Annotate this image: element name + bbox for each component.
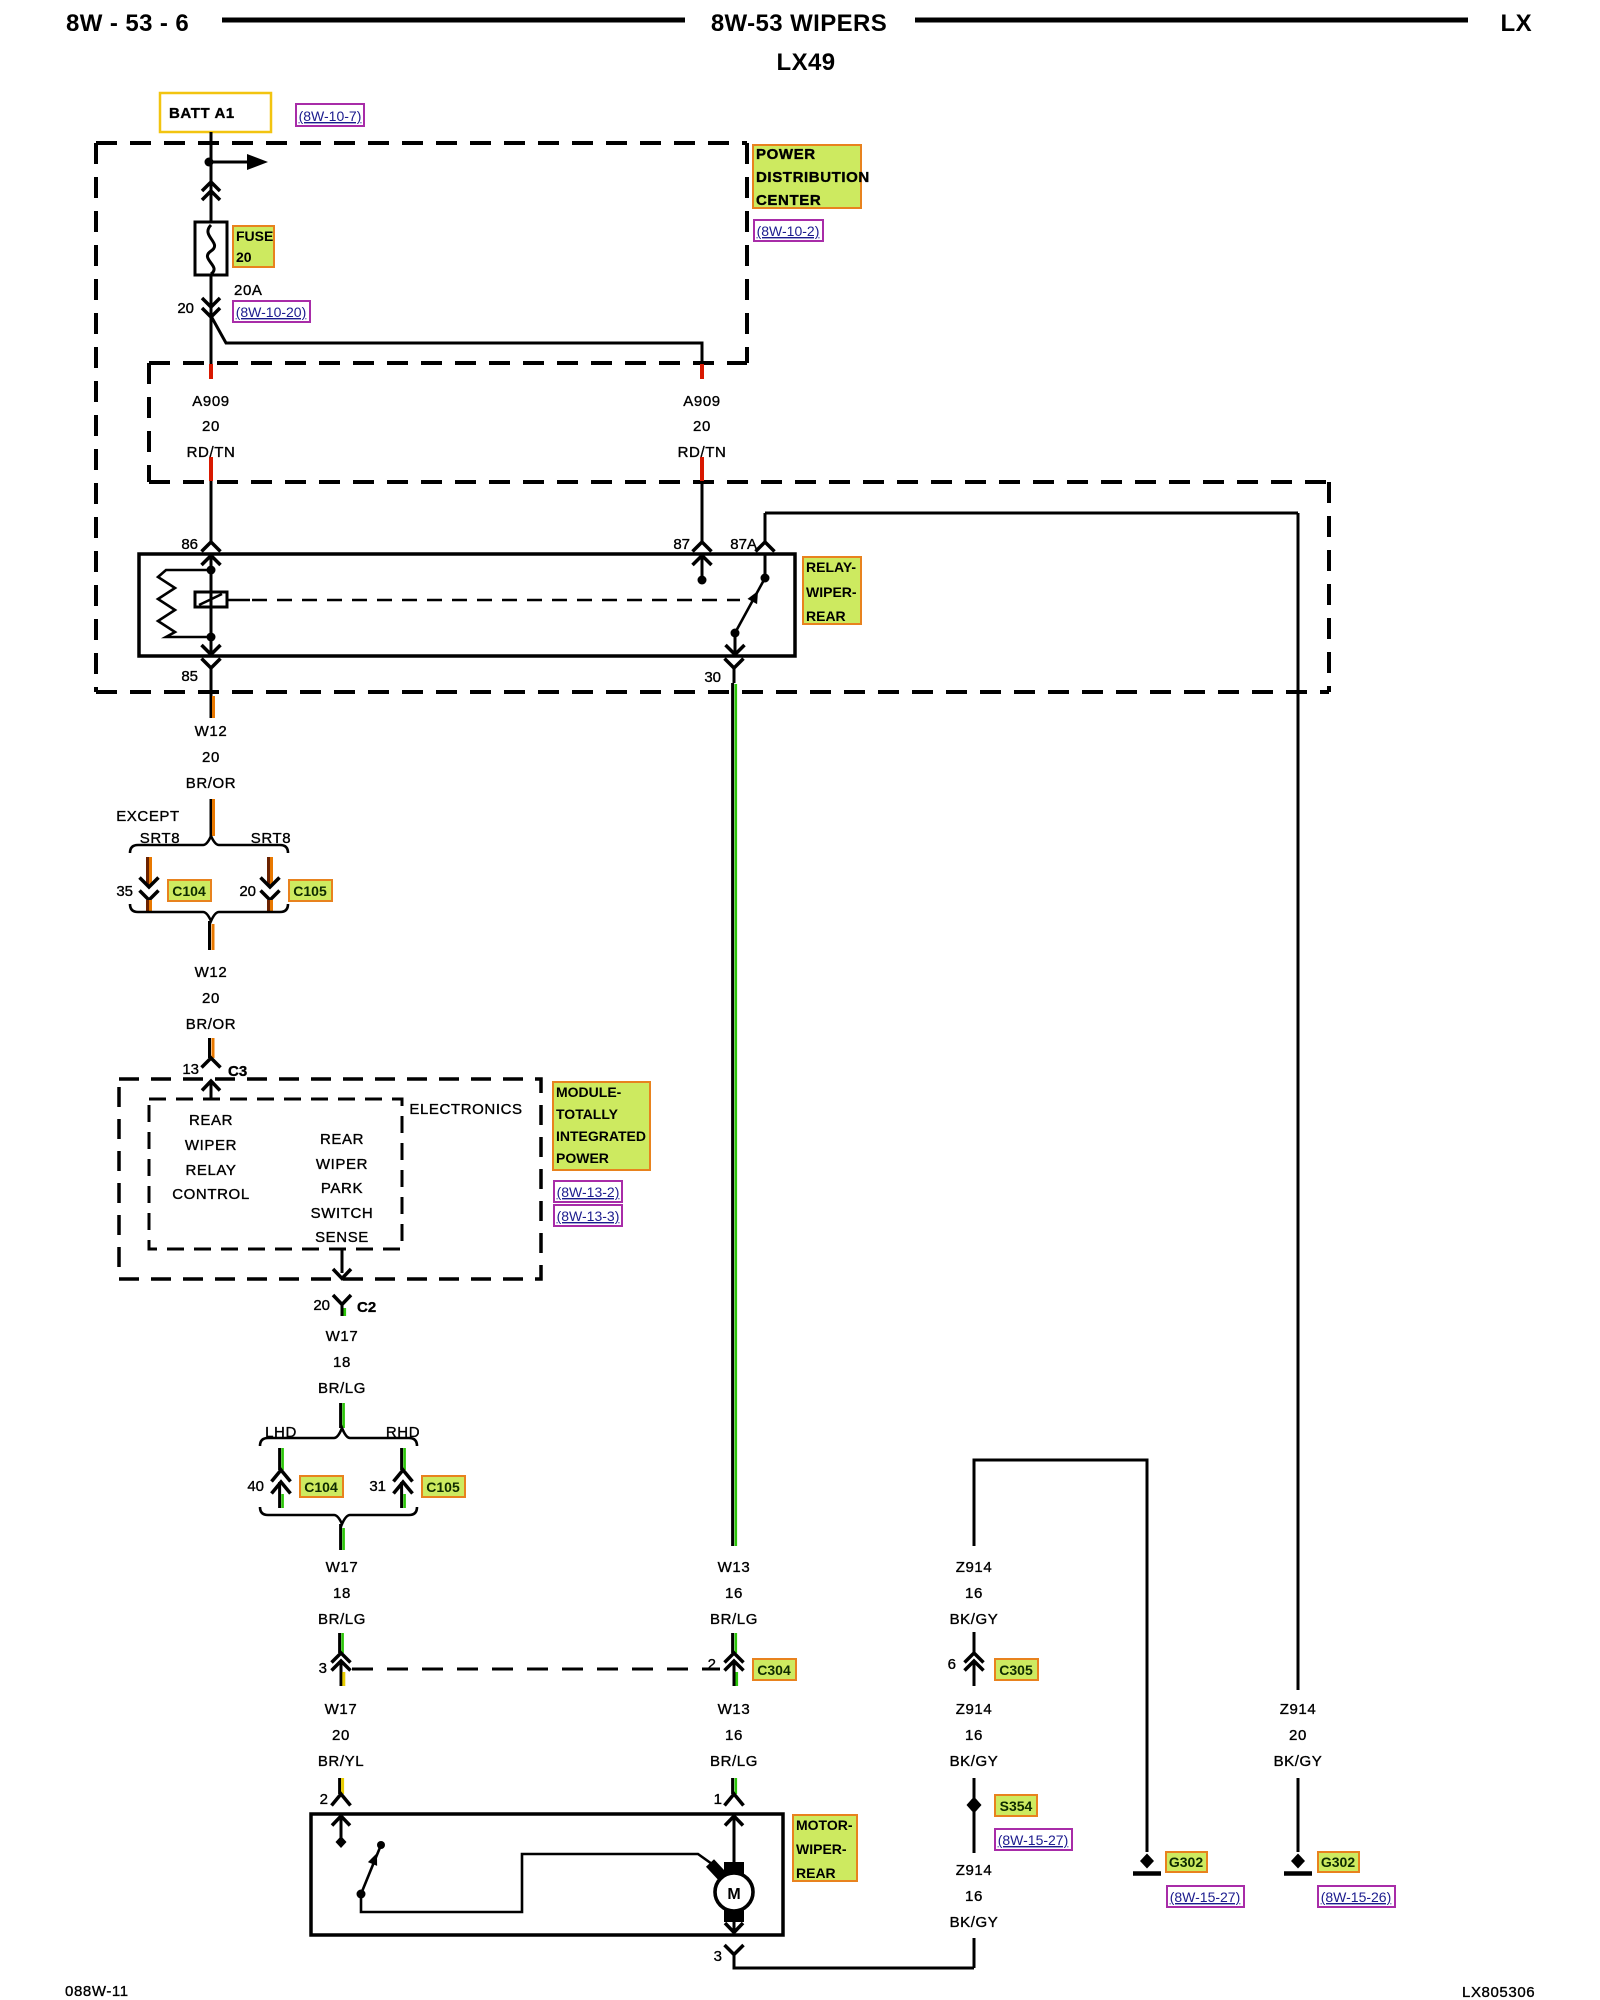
svg-text:20: 20 [1289,1727,1307,1744]
svg-text:MODULE-: MODULE- [556,1084,622,1100]
svg-text:WIPER-: WIPER- [806,584,857,600]
svg-text:BR/LG: BR/LG [710,1611,758,1628]
svg-text:W12: W12 [195,723,228,740]
svg-text:W17: W17 [326,1328,359,1345]
svg-text:(8W-10-2): (8W-10-2) [757,223,820,239]
svg-text:PARK: PARK [321,1180,363,1197]
svg-text:088W-11: 088W-11 [65,1983,129,2000]
svg-text:RELAY: RELAY [185,1162,236,1179]
svg-text:WIPER-: WIPER- [796,1841,847,1857]
svg-text:Z914: Z914 [956,1559,993,1576]
svg-text:20: 20 [202,749,220,766]
svg-text:20: 20 [239,883,256,900]
svg-text:Z914: Z914 [956,1701,993,1718]
svg-text:18: 18 [333,1354,351,1371]
svg-text:20: 20 [236,249,252,265]
svg-text:2: 2 [320,1791,328,1808]
svg-text:30: 30 [704,669,721,686]
svg-text:20: 20 [313,1297,330,1314]
svg-text:16: 16 [725,1727,743,1744]
svg-text:BR/YL: BR/YL [318,1753,364,1770]
svg-text:REAR: REAR [806,608,846,624]
svg-text:(8W-10-20): (8W-10-20) [236,304,307,320]
svg-text:20: 20 [177,300,194,317]
svg-text:S354: S354 [1000,1798,1033,1814]
svg-text:1: 1 [714,1791,722,1808]
svg-text:16: 16 [965,1727,983,1744]
svg-text:M: M [727,1886,740,1903]
svg-text:BR/LG: BR/LG [710,1753,758,1770]
svg-text:C2: C2 [357,1299,376,1316]
svg-text:W17: W17 [326,1559,359,1576]
svg-text:20: 20 [202,418,220,435]
svg-text:MOTOR-: MOTOR- [796,1817,853,1833]
svg-text:CONTROL: CONTROL [172,1186,250,1203]
svg-text:16: 16 [965,1585,983,1602]
svg-text:REAR: REAR [796,1865,836,1881]
svg-text:35: 35 [116,883,133,900]
svg-text:FUSE: FUSE [236,228,273,244]
svg-text:20: 20 [202,990,220,1007]
svg-text:BK/GY: BK/GY [950,1753,999,1770]
svg-text:LX805306: LX805306 [1462,1984,1535,2000]
svg-text:13: 13 [182,1061,199,1078]
svg-text:REAR: REAR [320,1131,364,1148]
svg-text:(8W-13-2): (8W-13-2) [557,1184,620,1200]
svg-text:40: 40 [247,1478,264,1495]
svg-text:20A: 20A [234,282,263,299]
svg-text:8W-53 WIPERS: 8W-53 WIPERS [711,10,887,37]
svg-text:87: 87 [673,536,690,553]
svg-text:3: 3 [714,1948,722,1965]
svg-text:16: 16 [725,1585,743,1602]
svg-text:W13: W13 [718,1701,751,1718]
svg-text:18: 18 [333,1585,351,1602]
svg-text:TOTALLY: TOTALLY [556,1106,619,1122]
svg-text:C3: C3 [228,1063,247,1080]
svg-text:BR/LG: BR/LG [318,1380,366,1397]
svg-text:(8W-15-27): (8W-15-27) [1170,1889,1241,1905]
svg-text:BR/LG: BR/LG [318,1611,366,1628]
svg-text:RD/TN: RD/TN [187,444,236,461]
svg-text:(8W-13-3): (8W-13-3) [557,1208,620,1224]
svg-text:A909: A909 [192,393,229,410]
svg-text:Z914: Z914 [956,1862,993,1879]
svg-text:BATT A1: BATT A1 [169,105,235,122]
svg-text:BK/GY: BK/GY [950,1914,999,1931]
svg-text:EXCEPT: EXCEPT [116,808,180,825]
svg-text:BR/OR: BR/OR [186,1016,237,1033]
svg-text:W12: W12 [195,964,228,981]
svg-text:DISTRIBUTION: DISTRIBUTION [756,169,870,186]
svg-text:A909: A909 [683,393,720,410]
svg-text:3: 3 [319,1660,327,1677]
svg-text:RELAY-: RELAY- [806,559,856,575]
svg-text:RD/TN: RD/TN [678,444,727,461]
svg-text:87A: 87A [730,536,757,553]
svg-text:ELECTRONICS: ELECTRONICS [409,1101,522,1118]
svg-text:20: 20 [693,418,711,435]
svg-text:C105: C105 [293,883,327,899]
svg-text:(8W-15-27): (8W-15-27) [998,1832,1069,1848]
svg-text:BR/OR: BR/OR [186,775,237,792]
svg-text:G302: G302 [1169,1854,1203,1870]
svg-text:SENSE: SENSE [315,1229,369,1246]
svg-text:8W - 53 - 6: 8W - 53 - 6 [66,10,189,37]
svg-text:6: 6 [948,1656,956,1673]
svg-text:85: 85 [181,668,198,685]
svg-text:C305: C305 [999,1662,1033,1678]
svg-text:C104: C104 [172,883,206,899]
svg-text:C304: C304 [757,1662,791,1678]
svg-text:31: 31 [369,1478,386,1495]
svg-text:SWITCH: SWITCH [311,1205,374,1222]
svg-text:16: 16 [965,1888,983,1905]
svg-text:W17: W17 [325,1701,358,1718]
svg-text:Z914: Z914 [1280,1701,1317,1718]
svg-text:BK/GY: BK/GY [950,1611,999,1628]
svg-text:WIPER: WIPER [316,1156,368,1173]
svg-text:LX49: LX49 [777,49,836,76]
svg-text:G302: G302 [1321,1854,1355,1870]
svg-text:86: 86 [181,536,198,553]
svg-text:C104: C104 [304,1479,338,1495]
svg-text:WIPER: WIPER [185,1137,237,1154]
svg-text:20: 20 [332,1727,350,1744]
svg-text:POWER: POWER [556,1150,609,1166]
svg-text:(8W-15-26): (8W-15-26) [1321,1889,1392,1905]
svg-text:INTEGRATED: INTEGRATED [556,1128,646,1144]
svg-text:REAR: REAR [189,1112,233,1129]
svg-text:W13: W13 [718,1559,751,1576]
svg-text:POWER: POWER [756,146,816,163]
svg-text:(8W-10-7): (8W-10-7) [299,108,362,124]
svg-text:CENTER: CENTER [756,192,821,209]
svg-text:BK/GY: BK/GY [1274,1753,1323,1770]
svg-text:2: 2 [708,1656,716,1673]
svg-text:LX: LX [1501,10,1532,37]
svg-text:C105: C105 [426,1479,460,1495]
